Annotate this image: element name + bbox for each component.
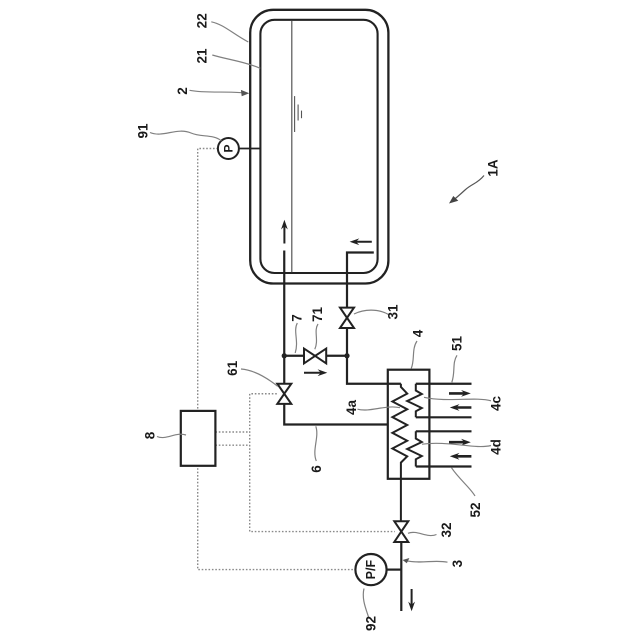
leader for label 1A with arrowhead [449, 176, 484, 204]
pipe: right riser valve31 to junction [346, 328, 348, 356]
svg-text:4a: 4a [344, 400, 359, 416]
svg-text:22: 22 [195, 13, 210, 28]
node: junction left [282, 353, 287, 358]
pipe 51: upper pair external pipes [416, 383, 472, 385]
pipe: left riser from tank to junction [283, 251, 285, 356]
pipe 52: lower pair external pipes [416, 430, 472, 432]
controller 8 [181, 411, 216, 466]
svg-text:1A: 1A [486, 159, 501, 177]
svg-text:71: 71 [310, 307, 325, 323]
pressure gauge 91 [218, 138, 261, 159]
leader for label 22 [211, 22, 248, 42]
pipe 6: valve 61 down then right to heat exchanger [284, 404, 388, 425]
water level line [291, 21, 293, 272]
svg-text:P: P [221, 144, 235, 152]
control line dashed: riser to valve 61 and drop to valve 32 [250, 394, 395, 532]
leader for label 91 [150, 131, 221, 141]
flow arrow left inside tank [350, 238, 372, 245]
flow arrow right upper pair [449, 390, 471, 397]
leader for label 4 [411, 341, 417, 369]
pipe 3: main drop below valve 32 [400, 542, 402, 611]
svg-text:6: 6 [309, 465, 324, 473]
svg-text:7: 7 [290, 314, 305, 322]
coil 4a zigzag [392, 384, 407, 521]
pipe: pump discharge to main pipe [387, 568, 402, 570]
svg-text:51: 51 [450, 336, 465, 352]
leader for label 8 [157, 434, 186, 437]
svg-text:91: 91 [136, 123, 151, 139]
pipe: right riser inside tank, horizontal to wall [347, 253, 374, 308]
leader for label 61 [241, 369, 278, 386]
flow arrow right below valve 71 [304, 369, 327, 376]
svg-text:3: 3 [450, 559, 465, 567]
tank inner wall 21 [260, 20, 377, 273]
flow arrow left lower pair [450, 453, 472, 460]
svg-text:21: 21 [195, 48, 210, 64]
svg-text:2: 2 [175, 87, 190, 95]
tank 2 outer wall [250, 10, 388, 284]
valve 71 [304, 349, 326, 364]
svg-text:P/F: P/F [364, 560, 378, 580]
leader for label 31 [354, 310, 389, 314]
coil 4d zigzag lower [407, 431, 422, 466]
leader for label 4d [422, 443, 491, 446]
leader for label 92 [363, 589, 368, 618]
leader for label 6 [315, 426, 317, 461]
flow arrow down at outlet [408, 589, 415, 611]
leader for label 52 [451, 468, 475, 496]
leader for label 4a [358, 407, 401, 410]
control line dashed: pressure gauge 91 to controller 8 to pump 92 [198, 149, 356, 570]
svg-text:52: 52 [468, 502, 483, 517]
flow arrow left upper pair [450, 404, 472, 411]
leader for label 32 [408, 532, 437, 535]
svg-text:8: 8 [143, 431, 158, 439]
leader for label 3 with hook [403, 558, 448, 563]
pump P/F 92 [355, 554, 386, 585]
node: junction right [344, 353, 349, 358]
control line dashed: controller 8 stub B [215, 444, 249, 446]
flow arrow up inside tank [281, 220, 288, 244]
valve 32 [394, 521, 408, 542]
svg-text:4d: 4d [489, 439, 504, 455]
flow arrow right lower pair [449, 439, 471, 446]
svg-text:32: 32 [439, 522, 454, 537]
pipe: junction down then right into heat exchanger [347, 356, 401, 384]
leader for label 4c [424, 397, 491, 401]
leader for label 21 [212, 55, 260, 68]
leader for label 71 [315, 324, 318, 349]
control line dashed: controller 8 stub A [215, 431, 249, 433]
pipe 7: cross connector with valve 71 [284, 355, 347, 357]
water surface marks [295, 96, 302, 132]
leader for label 2 with arrowhead [190, 90, 250, 96]
valve 31 [340, 308, 354, 328]
leader for label 51 [452, 355, 457, 382]
svg-text:31: 31 [386, 304, 401, 320]
pipe: left riser junction to valve 61 [283, 356, 285, 384]
heat exchanger 4 shell [388, 370, 430, 479]
svg-text:92: 92 [364, 616, 379, 631]
valve 61 [277, 384, 291, 404]
svg-text:4: 4 [410, 329, 425, 337]
leader for label 7 [295, 323, 297, 353]
coil 4c zigzag upper [407, 384, 422, 418]
svg-text:61: 61 [225, 360, 240, 376]
svg-text:4c: 4c [489, 396, 504, 412]
